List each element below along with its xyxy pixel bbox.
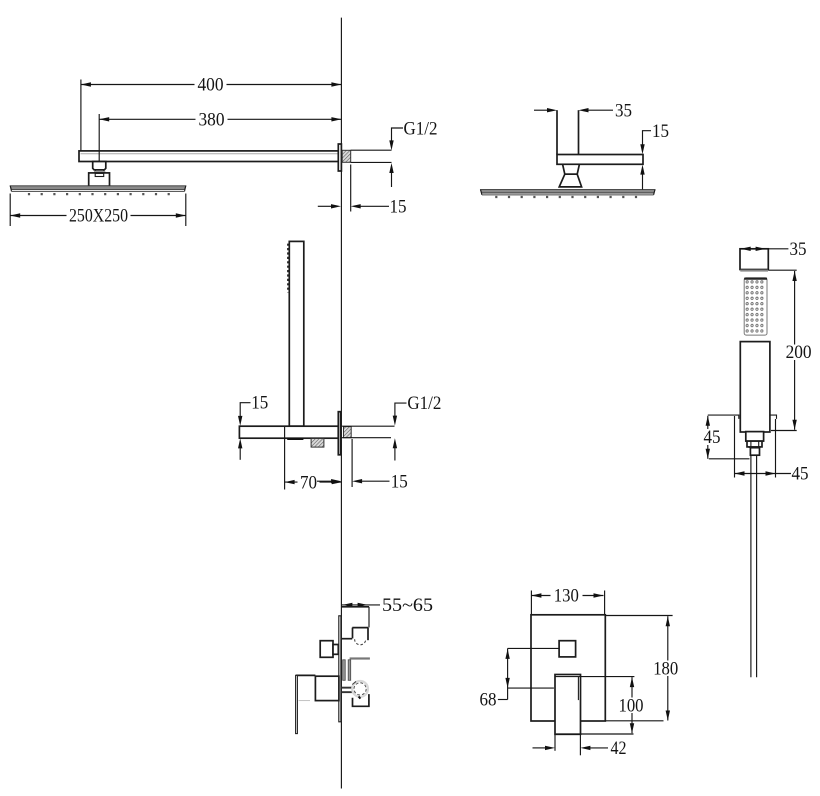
cartridge inlet stub upper — [342, 687, 352, 689]
handle lip line — [555, 676, 581, 678]
pipe bottom line right of wall (mid view) — [342, 437, 391, 439]
dimension 380 arrow left — [99, 117, 109, 121]
dimension 70 line — [285, 481, 342, 483]
dimension 180 line — [667, 616, 669, 720]
dimension 250X250 arrow left — [10, 213, 20, 217]
dimension 200 bottom extension — [771, 430, 797, 432]
dimension 400 arrow left — [81, 82, 91, 86]
pipe top line right of wall (mid view) — [342, 425, 395, 427]
dimension 45 line (left) — [707, 416, 709, 459]
svg-text:15: 15 — [390, 198, 407, 218]
dimension 35 arrow pointing right — [547, 108, 557, 112]
dimension 200 line — [794, 271, 796, 430]
dimension 180 label — [651, 661, 682, 677]
G1/2 leader (mid view) — [395, 403, 407, 416]
lower valve block — [353, 694, 369, 706]
dimension 45 left extension (bottom) — [734, 416, 736, 478]
wall flange of arm — [338, 144, 341, 171]
shower arm — [79, 151, 341, 162]
dimension 15 arrow up — [640, 165, 644, 175]
dimension 55~65 line — [342, 604, 380, 606]
dimension 100 arrow down — [630, 723, 634, 733]
svg-text:130: 130 — [554, 587, 579, 607]
dimension 15 left tail — [318, 205, 332, 207]
dimension 42 arrow pointing left — [580, 746, 590, 750]
dimension 35 left tail — [534, 109, 548, 111]
dimension 15 leader — [643, 131, 652, 146]
G1/2 lower arrow up — [389, 163, 393, 173]
svg-text:180: 180 — [653, 659, 678, 679]
dimension 55~65 arrow right — [358, 603, 368, 607]
svg-text:45: 45 — [792, 465, 809, 485]
connector neck — [95, 170, 104, 172]
dimension 380 extension line — [98, 114, 100, 162]
diverter button side view — [320, 641, 333, 658]
shower head plate top band (side view) — [481, 190, 656, 193]
arm drop tube right edge — [578, 110, 580, 154]
dimension 15 left tail (mid view) — [317, 480, 332, 482]
outlet port dashed arc — [355, 639, 366, 645]
hand shower wand body — [289, 241, 304, 426]
shower head plate right edge — [185, 186, 186, 192]
wall pipe hatched section — [342, 150, 351, 162]
dimension 180 top extension — [605, 615, 672, 617]
dimension 15 lower tail — [642, 174, 644, 190]
svg-text:55~65: 55~65 — [382, 596, 433, 616]
outlet block notch left — [352, 628, 354, 639]
dimension 100 line — [631, 677, 633, 733]
dimension 45 label (left) — [700, 429, 724, 445]
dimension 70 label — [298, 475, 320, 490]
mixer lever bar — [296, 675, 298, 733]
hex nut rounded bottom — [748, 447, 761, 448]
swivel ball band — [94, 171, 105, 174]
dimension 45 bottom extension (left) — [709, 458, 750, 460]
dimension 70 arrow right — [332, 480, 342, 484]
G1/2 arrow up (mid view) — [393, 438, 397, 448]
svg-text:380: 380 — [199, 111, 225, 131]
dimension 130 arrow right — [594, 593, 604, 597]
mixer handle front view — [555, 675, 581, 735]
cartridge pointer tick — [359, 697, 361, 699]
dimension 400 extension line — [80, 80, 82, 151]
dimension 15 arrow pointing right (mid view) — [331, 479, 341, 483]
svg-text:15: 15 — [652, 122, 669, 142]
hose connector lower piece — [750, 448, 759, 456]
cartridge bar left — [343, 660, 346, 681]
dimension 400 line — [81, 84, 342, 86]
dimension 15 arrow up (holder) — [238, 438, 242, 448]
svg-text:70: 70 — [300, 473, 317, 493]
dimension 68 top extension — [508, 647, 559, 649]
dimension 180 bottom extension — [605, 720, 663, 722]
dimension 55~65 extension / valve right edge — [368, 607, 370, 628]
cartridge dial circle — [354, 683, 366, 695]
shower head plate bottom line (side view) — [482, 194, 654, 196]
dimension 45 line (bottom) — [735, 473, 792, 475]
svg-text:68: 68 — [480, 691, 497, 711]
upper pipe bar — [350, 657, 370, 659]
G1/2 leader top view — [392, 128, 404, 141]
lever base faint line — [299, 700, 311, 702]
dimension 130 extension right — [604, 591, 606, 615]
shower hose right line — [756, 455, 758, 677]
dimension 130 line — [531, 595, 603, 597]
shower head plate left edge (side view) — [481, 190, 482, 195]
shower head plate bottom line — [12, 190, 185, 192]
dimension 15 right tail — [360, 205, 389, 207]
wand outlet tick below bar — [287, 438, 303, 440]
holder hatched nut — [311, 439, 324, 448]
dimension 35 right tail — [588, 109, 613, 111]
dimension 250X250 label — [67, 208, 131, 224]
dimension 200 label — [784, 345, 815, 361]
dimension 45 arrow up (left) — [706, 416, 710, 426]
hand shower handle — [740, 342, 770, 432]
dimension 45 arrow left (bottom) — [735, 471, 745, 475]
rough-in valve top outlet block — [342, 606, 369, 608]
dimension 70 extension line — [284, 427, 286, 490]
hose connector hex nut — [747, 441, 762, 447]
swivel nut — [563, 164, 580, 174]
mounting plate edge-on — [339, 616, 341, 722]
mixer handle base (side view) — [315, 676, 339, 700]
dimension 380 line — [99, 118, 341, 120]
head connector box inner collar — [95, 173, 104, 176]
svg-text:45: 45 — [704, 428, 721, 448]
dimension 380 extension through arm — [98, 151, 100, 163]
dimension 15 lower tail (holder) — [239, 448, 241, 460]
diverter button front view — [559, 641, 576, 657]
dimension 68 arrow down — [505, 678, 509, 688]
dimension 15 right tail (mid view) — [362, 480, 390, 482]
shower head nozzle dots — [28, 193, 172, 195]
dimension 15 leader (holder thickness) — [240, 403, 250, 417]
holder bar — [239, 426, 338, 438]
wall escutcheon flange — [338, 412, 340, 455]
dimension 100 bottom extension — [556, 733, 634, 735]
dimension 35 arrow left (hand shower) — [741, 247, 751, 251]
hex nut facet right — [758, 441, 760, 447]
svg-text:100: 100 — [619, 696, 644, 716]
dimension 70 arrow left — [285, 480, 295, 484]
shower head plate top band — [10, 186, 186, 190]
svg-text:15: 15 — [251, 393, 268, 413]
spray face nozzle grid — [745, 279, 765, 334]
dimension 130 label — [551, 588, 583, 604]
dimension 15 arrow pointing right — [331, 204, 341, 208]
spray face top edge — [744, 278, 767, 280]
hand shower spray face — [744, 278, 767, 335]
dimension 68 bottom extension — [508, 687, 554, 689]
dimension 68 arrow up — [505, 649, 509, 659]
dimension 250X250 extension line right — [185, 194, 187, 227]
dimension 42 right tail — [590, 747, 608, 749]
dimension 130 arrow left — [531, 593, 541, 597]
hex nut facet left — [750, 441, 752, 447]
diverter button neck — [333, 645, 338, 655]
arm-to-head connector block — [93, 162, 106, 170]
svg-text:250X250: 250X250 — [69, 207, 128, 227]
svg-text:400: 400 — [198, 76, 224, 96]
svg-text:35: 35 — [615, 101, 632, 121]
svg-text:35: 35 — [790, 240, 807, 260]
dimension 15 arrow down (holder) — [238, 416, 242, 426]
svg-text:42: 42 — [611, 739, 627, 759]
hand shower cap bottom band — [740, 270, 768, 272]
dimension 400 label — [195, 77, 227, 93]
wall pipe hatched section (mid view) — [344, 427, 352, 438]
G1/2 arrow down (mid view) — [393, 416, 397, 426]
G1/2 lower tail (mid view) — [394, 448, 396, 461]
svg-text:G1/2: G1/2 — [407, 394, 441, 414]
holder cup rim left — [708, 415, 739, 419]
shower arm inner highlight line — [81, 153, 341, 155]
hand shower top cap — [740, 249, 768, 270]
dimension 100 top extension — [581, 676, 635, 678]
dimension 250X250 arrow right — [176, 213, 186, 217]
dimension 380 arrow right — [331, 117, 341, 121]
dimension 45 right extension (bottom) — [775, 419, 777, 478]
dimension 42 extension right — [579, 735, 581, 755]
shower head plate left edge — [10, 186, 11, 192]
pipe stub top line right of wall — [351, 149, 392, 151]
ceiling plate band (arm seen end-on) — [557, 155, 643, 165]
cartridge bar right — [348, 660, 351, 681]
dimension 15 arrow pointing left — [351, 204, 361, 208]
dimension 15 arrow pointing left (mid view) — [352, 479, 362, 483]
dimension 68 leader — [498, 699, 508, 701]
dimension 35 arrow pointing left — [579, 108, 589, 112]
mixer lever top — [296, 674, 316, 676]
G1/2 leader arrow down — [389, 140, 393, 150]
G1/2 lower arrow tail — [391, 173, 393, 188]
hose connector collar — [746, 432, 764, 442]
dimension 130 extension left — [530, 591, 532, 615]
dimension 250X250 line — [10, 215, 186, 217]
dimension 180 arrow up — [666, 616, 670, 626]
dimension 250X250 extension line left — [9, 194, 11, 227]
dimension 200 arrow up — [792, 271, 796, 281]
holder cup rim right — [770, 415, 777, 419]
dimension 68 line — [507, 648, 509, 699]
dimension 100 arrow up — [630, 677, 634, 687]
dimension 200 top extension — [768, 269, 796, 271]
dimension 15 extension line (wall thickness, mid view) — [351, 439, 353, 487]
dimension 35 arrow right (hand shower) — [756, 247, 766, 251]
dimension 42 left tail — [533, 747, 547, 749]
dimension 180 arrow down — [666, 711, 670, 721]
cartridge halo ring — [352, 681, 368, 697]
handle inner edge line — [577, 677, 579, 701]
pipe stub bottom line right of wall — [351, 161, 392, 163]
dimension 42 extension left — [554, 735, 556, 751]
dimension 35 line (hand shower) — [741, 248, 789, 250]
dimension 15 arrow down — [640, 144, 644, 154]
mixer face plate — [531, 615, 605, 721]
outlet block notch top — [352, 627, 368, 629]
shower head nozzle dots (side view) — [495, 196, 640, 198]
head connector box — [89, 173, 110, 186]
dimension 200 arrow down — [792, 420, 796, 430]
outlet block notch right — [367, 628, 369, 641]
svg-text:200: 200 — [786, 343, 812, 363]
outlet block bottom — [342, 638, 352, 640]
dimension 55~65 arrow left — [342, 603, 352, 607]
svg-text:G1/2: G1/2 — [404, 119, 438, 139]
dimension 45 arrow down (left) — [706, 449, 710, 459]
shower hose left line — [750, 455, 752, 677]
svg-text:15: 15 — [391, 472, 408, 492]
dimension 400 arrow right — [331, 82, 341, 86]
dimension 42 arrow pointing right — [545, 746, 555, 750]
diagonal tick upper-left of dial — [352, 681, 356, 684]
cartridge inlet stub lower — [342, 691, 352, 693]
shower head plate right edge (side view) — [654, 190, 655, 195]
wall centre line — [340, 18, 342, 789]
arm drop tube left edge — [556, 110, 558, 154]
dimension 380 label — [196, 111, 228, 127]
hand shower spray nozzle scallops — [287, 244, 289, 293]
dimension 15 extension line (wall thickness, top view) — [350, 165, 352, 212]
dimension 45 arrow right (bottom) — [766, 471, 776, 475]
swivel cone — [559, 174, 581, 187]
dimension 100 label — [616, 698, 648, 714]
